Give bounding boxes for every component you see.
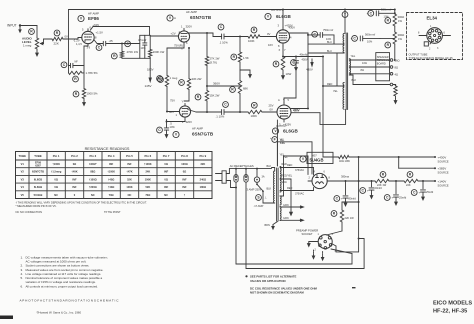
svg-text:1,4,5: 1,4,5	[76, 42, 82, 46]
svg-text:26Ω: 26Ω	[282, 181, 287, 184]
wire UL tap BLU lower	[308, 50, 344, 86]
capacitor C5 .1 10% lower	[216, 102, 229, 119]
svg-text:0V: 0V	[270, 108, 274, 112]
wire UL tap BLU upper	[308, 41, 344, 44]
wire B+ riser	[322, 57, 324, 158]
wire V2B grid	[167, 111, 179, 113]
svg-text:560mmf: 560mmf	[365, 33, 375, 37]
mark corner bar	[0, 316, 13, 320]
svg-text:70Ω: 70Ω	[145, 193, 150, 197]
wire R2 to V1 grid	[63, 38, 82, 40]
tube V2B 6SN7GTB	[169, 99, 214, 138]
svg-text:†100K: †100K	[107, 170, 115, 174]
svg-text:100K: 100K	[248, 39, 255, 43]
svg-text:Pin 5: Pin 5	[126, 154, 133, 158]
wire input to pot	[20, 26, 37, 39]
capacitor C2 feedback	[61, 61, 84, 68]
wire +140V chain	[359, 180, 375, 182]
svg-text:VALUES OR APPLICATION: VALUES OR APPLICATION	[250, 279, 286, 283]
svg-text:5: 5	[82, 28, 84, 32]
note DC COIL RESISTANCE	[250, 286, 317, 294]
svg-text:22K: 22K	[406, 183, 411, 187]
capacitor C11 80mfd filter	[334, 180, 356, 206]
wire socket shield grounds	[312, 250, 324, 260]
svg-text:Pin 1: Pin 1	[53, 154, 60, 158]
wire V2A cathode	[167, 45, 184, 75]
transformer T2 core	[277, 168, 279, 221]
svg-text:24K: 24K	[145, 170, 150, 174]
svg-text:0Ω: 0Ω	[164, 177, 168, 181]
svg-text:8: 8	[278, 44, 280, 48]
svg-text:NC: NC	[164, 193, 168, 197]
svg-text:60V: 60V	[169, 110, 174, 114]
wire V5 output	[331, 175, 359, 182]
wire V4 cathode up	[284, 66, 296, 102]
capacitor C4 .5 cathode bypass	[157, 120, 185, 138]
svg-text:240Ω: 240Ω	[200, 177, 206, 181]
svg-text:NC NO CONNECTION: NC NO CONNECTION	[16, 210, 43, 214]
resistor R8 33K 2W	[179, 47, 202, 101]
svg-text:1000 5%: 1000 5%	[87, 92, 99, 96]
svg-text:0Ω: 0Ω	[164, 162, 168, 166]
svg-text:68K: 68K	[243, 87, 248, 91]
svg-text:A P H O T O F A C T S T A N: A P H O T O F A C T S T A N D A R D N O …	[20, 298, 120, 302]
svg-text:Pin 2: Pin 2	[71, 154, 78, 158]
svg-text:YEL: YEL	[280, 142, 285, 145]
svg-text:1 meg: 1 meg	[23, 44, 32, 48]
svg-text:X: X	[279, 48, 281, 52]
wire T2 6.3V green Y	[280, 217, 304, 221]
wire socket top loop	[359, 239, 365, 269]
svg-text:4Ω: 4Ω	[395, 72, 399, 76]
svg-text:R: R	[387, 19, 390, 23]
svg-text:180Ω: 180Ω	[200, 185, 206, 189]
wire T1 sec tap 4ohm	[349, 73, 390, 75]
svg-text:RED: RED	[287, 187, 292, 190]
resistor R15 250 ohm 10W cathode	[273, 56, 292, 79]
svg-text:R: R	[387, 43, 390, 47]
wire socket left ground	[308, 242, 319, 247]
svg-text:NOT SHOWN ON SCHEMATIC DIA: NOT SHOWN ON SCHEMATIC DIAGRAM	[250, 291, 304, 295]
svg-text:†100K: †100K	[144, 162, 152, 166]
wire bottoms 470K/200K	[122, 57, 150, 59]
svg-text:22K 1W: 22K 1W	[345, 216, 355, 220]
svg-text:25mfd: 25mfd	[426, 190, 434, 194]
socket PREAMP POWER	[296, 228, 337, 253]
svg-text:C: C	[413, 191, 416, 195]
svg-text:320V: 320V	[186, 120, 193, 124]
svg-text:1.5K: 1.5K	[243, 56, 249, 60]
svg-text:GRN: GRN	[283, 217, 289, 220]
transformer T1 secondary	[349, 55, 356, 82]
svg-text:TUBE: TUBE	[34, 154, 42, 158]
svg-text:380ma: 380ma	[341, 175, 349, 179]
svg-text:-1.2V: -1.2V	[73, 39, 80, 43]
svg-text:6267: 6267	[35, 164, 41, 167]
resistor R10 15K 2W	[195, 91, 220, 114]
svg-text:†100Ω: †100Ω	[89, 177, 97, 181]
svg-text:†47K: †47K	[126, 170, 132, 174]
svg-text:R: R	[56, 31, 59, 35]
svg-text:(8.7K): (8.7K)	[210, 61, 218, 65]
svg-text:+: +	[341, 197, 343, 201]
svg-text:5.: 5.	[21, 276, 24, 280]
svg-text:BOARD: BOARD	[377, 63, 386, 66]
wire R7 bottom	[166, 87, 168, 113]
svg-text:V1: V1	[21, 162, 25, 166]
svg-text:+: +	[367, 189, 369, 193]
wire V3 screen	[289, 26, 309, 34]
svg-text:.25: .25	[109, 39, 114, 43]
table RESISTANCE READINGS	[16, 147, 213, 199]
svg-text:YEL: YEL	[351, 55, 356, 58]
svg-text:88Ω: 88Ω	[90, 170, 95, 174]
svg-text:NC: NC	[128, 193, 132, 197]
svg-text:320V: 320V	[186, 25, 193, 29]
svg-text:F: F	[274, 138, 276, 142]
wire top feedback rail	[69, 9, 396, 11]
svg-text:BLU: BLU	[327, 50, 332, 53]
svg-text:NC: NC	[91, 193, 95, 197]
transformer T1 primary bottom	[343, 83, 344, 110]
svg-text:SOCKET: SOCKET	[302, 232, 313, 236]
svg-text:22K: 22K	[54, 42, 59, 46]
svg-text:25mfd: 25mfd	[399, 196, 407, 200]
tube V4 6L6GB OUTPUT	[269, 98, 300, 146]
svg-text:420V: 420V	[293, 109, 300, 113]
wire box to V2A grid	[150, 35, 178, 37]
svg-text:6SN7GTB: 6SN7GTB	[32, 170, 44, 174]
svg-text:47mmf: 47mmf	[138, 38, 146, 42]
wire T2 HV center tap	[280, 175, 293, 216]
tube EL34	[418, 15, 451, 50]
svg-text:C: C	[353, 37, 356, 41]
svg-text:YEL: YEL	[333, 90, 338, 93]
node 145V feed	[145, 58, 164, 88]
svg-text:R: R	[113, 54, 116, 58]
wire feedback vertical	[68, 10, 70, 66]
svg-text:BLK: BLK	[267, 165, 272, 168]
svg-text:75V: 75V	[170, 99, 175, 103]
svg-text:1.78K 5%: 1.78K 5%	[86, 71, 99, 75]
svg-text:+: +	[290, 61, 292, 65]
resistor R13 1.5K	[231, 36, 249, 81]
svg-text:40mfd: 40mfd	[300, 52, 308, 56]
resistor R17 300 ohm 1W upper	[385, 9, 404, 27]
svg-text:1: 1	[176, 113, 178, 117]
svg-text:0V: 0V	[267, 32, 271, 36]
svg-text:TUBE: TUBE	[18, 154, 26, 158]
svg-text:SOURCE: SOURCE	[438, 184, 449, 188]
svg-text:R: R	[75, 92, 78, 96]
resistor R16 NFB divider	[393, 85, 397, 104]
svg-text:2: 2	[182, 120, 184, 124]
capacitor C8 750mmf	[307, 28, 334, 44]
svg-text:40Ω 10W: 40Ω 10W	[339, 159, 350, 163]
svg-text:1: 1	[318, 233, 320, 236]
svg-text:1: 1	[430, 25, 432, 28]
wire T1 sec tap 8ohm	[349, 67, 390, 72]
svg-text:INF: INF	[127, 162, 132, 166]
svg-text:V: V	[267, 15, 270, 19]
svg-text:+140V: +140V	[438, 180, 447, 184]
tube V1 EF86 AF AMP	[73, 12, 103, 50]
svg-text:+430V: +430V	[438, 156, 447, 160]
capacitor C7 40mfd cathode bypass	[283, 52, 324, 71]
mark speck	[352, 287, 356, 288]
tube V5 5U4GB rectifier	[300, 152, 333, 188]
resistor R2 22K	[52, 30, 68, 45]
svg-text:8: 8	[418, 32, 420, 35]
svg-text:10%: 10%	[170, 125, 176, 129]
capacitor C3 47mmf with resistor box	[138, 35, 150, 58]
svg-text:TP TIE POINT: TP TIE POINT	[104, 210, 121, 214]
wire bleeder vertical	[358, 157, 360, 202]
label 180V	[147, 68, 154, 72]
svg-text:X: X	[181, 47, 183, 51]
tube V2A 6SN7GTB AF AMP	[167, 10, 212, 51]
svg-text:1W: 1W	[398, 37, 402, 41]
svg-text:20mfd: 20mfd	[375, 186, 383, 190]
svg-text:6SN7GTB: 6SN7GTB	[190, 15, 212, 20]
svg-text:C: C	[313, 32, 316, 36]
transformer T1 output primary top	[343, 9, 346, 53]
svg-text:NC: NC	[54, 193, 58, 197]
svg-text:10%: 10%	[141, 47, 147, 50]
resistor R21 22K filter	[389, 172, 436, 187]
svg-text:6SN7GTB: 6SN7GTB	[192, 132, 214, 137]
svg-text:* MEASURED FROM PIN 8 OF V5.: * MEASURED FROM PIN 8 OF V5.	[16, 204, 57, 208]
svg-text:.5: .5	[170, 122, 173, 126]
label AC RECEPTACLES	[230, 164, 254, 168]
svg-text:+1.5V: +1.5V	[96, 31, 104, 35]
svg-text:INF: INF	[164, 185, 169, 189]
svg-text:RED: RED	[287, 164, 292, 167]
note SEE PARTS LIST	[245, 275, 296, 283]
svg-text:AF AMP: AF AMP	[192, 127, 203, 131]
svg-text:10W: 10W	[286, 72, 292, 76]
svg-text:3 AMP 250V: 3 AMP 250V	[247, 188, 262, 192]
wire AC bus top	[229, 165, 271, 169]
svg-text:300Ω: 300Ω	[398, 33, 405, 37]
receptacle 2	[235, 169, 248, 269]
resistor R3 feedback 1.78K	[69, 66, 99, 82]
capacitor C1 .25	[94, 39, 140, 51]
svg-text:EL34: EL34	[427, 15, 438, 20]
wire V4 filament drop	[277, 120, 284, 166]
potentiometer R1 AUDIO LEVEL 1 meg	[22, 29, 44, 49]
svg-text:3: 3	[278, 24, 280, 28]
box EL34 alternate output tube	[407, 13, 463, 60]
svg-text:R: R	[30, 30, 33, 34]
svg-text:V5: V5	[21, 193, 25, 197]
svg-text:Y: Y	[182, 100, 184, 104]
wire V2A plate	[188, 32, 208, 34]
wire V3 cathode	[282, 46, 284, 57]
svg-text:200K 1W: 200K 1W	[153, 50, 165, 54]
svg-text:V: V	[169, 16, 172, 20]
transformer T1 designator	[342, 12, 348, 18]
svg-text:52K: 52K	[127, 177, 132, 181]
svg-text:430V: 430V	[306, 68, 313, 72]
svg-text:V: V	[302, 157, 305, 161]
terminal 4 ohm	[390, 72, 398, 76]
resistor R12 100K grid V3	[224, 27, 276, 43]
svg-text:©Howard W. Sams & Co., Inc. 19: ©Howard W. Sams & Co., Inc. 1960	[37, 310, 82, 314]
resistor R14 68K	[230, 81, 249, 114]
svg-text:AC RECEPTACLES: AC RECEPTACLES	[230, 164, 254, 168]
svg-text:INF: INF	[109, 162, 114, 166]
capacitor C12 20mfd filter	[360, 180, 382, 198]
svg-text:450V: 450V	[302, 58, 308, 62]
title EICO MODELS HF-22 HF-35	[433, 301, 472, 315]
terminal G ground	[390, 83, 396, 87]
wire T1 sec tap 16ohm	[349, 60, 390, 65]
resistor R18 300 ohm 1W lower	[380, 26, 404, 48]
svg-text:750mmf: 750mmf	[323, 28, 333, 32]
transformer T2 6.3V winding	[265, 207, 282, 230]
resistor R7 1 meg	[157, 75, 178, 86]
svg-text:AF AMP: AF AMP	[88, 12, 99, 16]
note PHOTOFACT line	[20, 298, 120, 302]
svg-text:OUTPUT: OUTPUT	[271, 8, 283, 12]
capacitor C6 .1 10% upper	[207, 24, 228, 44]
svg-text:375VAC: 375VAC	[295, 193, 304, 196]
svg-text:†100K: †100K	[52, 162, 60, 166]
svg-text:R: R	[74, 77, 77, 81]
svg-text:Y: Y	[284, 48, 286, 52]
node +430V SOURCE	[434, 156, 449, 164]
svg-text:+: +	[311, 32, 313, 36]
svg-text:† THIS READING WILL VARY DEP: † THIS READING WILL VARY DEPENDING UPON …	[16, 200, 148, 204]
svg-text:R: R	[253, 104, 256, 108]
note copyright	[37, 310, 82, 314]
svg-text:A: A	[278, 98, 280, 102]
svg-text:GRN: GRN	[283, 204, 289, 207]
resistor R9 27K 1W plate load	[205, 33, 220, 66]
svg-text:†: †	[184, 193, 186, 197]
svg-text:8: 8	[329, 177, 331, 180]
svg-text:3: 3	[437, 47, 439, 50]
node INPUT jack J1	[7, 24, 21, 33]
svg-text:BRN: BRN	[265, 224, 270, 227]
svg-text:INF: INF	[182, 177, 187, 181]
svg-text:10%: 10%	[367, 40, 373, 44]
resistor R5 470K 1W	[111, 43, 138, 59]
svg-text:0Ω: 0Ω	[183, 170, 187, 174]
svg-text:.1 10%: .1 10%	[216, 114, 225, 118]
label OUTPUT TUBE note	[409, 53, 454, 61]
svg-text:6.: 6.	[21, 284, 24, 288]
svg-text:R: R	[409, 173, 412, 177]
svg-text:V: V	[80, 17, 83, 21]
wire V4 screen	[291, 108, 309, 110]
svg-text:0: 0	[74, 193, 76, 197]
svg-text:145V: 145V	[145, 84, 152, 88]
svg-text:RESISTANCE READINGS: RESISTANCE READINGS	[85, 147, 130, 151]
svg-text:C: C	[370, 12, 373, 16]
svg-text:C: C	[98, 46, 101, 50]
svg-text:+: +	[351, 37, 353, 41]
svg-text:6L6GB: 6L6GB	[34, 177, 42, 181]
svg-text:1 meg: 1 meg	[170, 76, 178, 80]
tube V3 6L6GB OUTPUT	[265, 8, 293, 52]
svg-text:.17 AMP: .17 AMP	[254, 204, 264, 208]
svg-text:C: C	[220, 25, 223, 29]
svg-text:Pin 9: Pin 9	[200, 154, 207, 158]
wire V4 plate	[291, 109, 346, 125]
svg-text:300Ω: 300Ω	[398, 15, 405, 19]
svg-text:+: +	[367, 12, 369, 16]
svg-text:C: C	[361, 189, 364, 193]
svg-text:SOURCE: SOURCE	[438, 171, 449, 175]
svg-text:100K: 100K	[126, 185, 132, 189]
svg-text:†40Ω: †40Ω	[108, 185, 114, 189]
svg-text:A: A	[174, 16, 176, 20]
svg-text:100K: 100K	[145, 177, 151, 181]
svg-text:360V: 360V	[213, 82, 220, 86]
svg-text:INF: INF	[182, 185, 187, 189]
svg-text:V2: V2	[21, 170, 25, 174]
svg-text:33K 2W: 33K 2W	[192, 77, 202, 81]
svg-text:R: R	[275, 62, 278, 66]
ground pot R1	[36, 49, 39, 56]
svg-text:6L6GB: 6L6GB	[283, 129, 298, 134]
receptacle 1	[234, 169, 238, 264]
transformer T2 5V winding	[280, 196, 281, 205]
svg-text:†40Ω: †40Ω	[108, 177, 114, 181]
choke-resistor R19 on B+ rail	[323, 155, 435, 163]
svg-text:375VAC: 375VAC	[295, 169, 304, 172]
svg-text:100Ω: 100Ω	[181, 162, 187, 166]
svg-text:15K 2W: 15K 2W	[210, 94, 220, 98]
svg-text:1W: 1W	[398, 19, 402, 23]
svg-text:180V: 180V	[147, 68, 154, 72]
svg-text:RED/YEL: RED/YEL	[282, 175, 293, 178]
svg-text:C: C	[126, 42, 129, 46]
svg-text:C: C	[224, 103, 227, 107]
svg-text:OUTPUT TUBE: OUTPUT TUBE	[409, 53, 428, 57]
wire screen bus vertical	[307, 33, 309, 109]
svg-text:INF: INF	[164, 170, 169, 174]
svg-text:Pin 6: Pin 6	[145, 154, 152, 158]
switch S1 on-off	[254, 182, 272, 208]
svg-text:4: 4	[290, 36, 292, 40]
transformer T2 primary	[272, 168, 275, 204]
wire pot wiper to R2	[44, 38, 53, 40]
wire T1 sec ground lead	[349, 75, 390, 85]
svg-text:430V: 430V	[289, 26, 296, 30]
transformer T1 core	[346, 33, 347, 110]
svg-text:2: 2	[429, 48, 431, 51]
svg-text:INF: INF	[72, 185, 77, 189]
svg-text:16Ω: 16Ω	[362, 61, 367, 65]
svg-text:100K: 100K	[251, 114, 258, 118]
svg-text:R: R	[197, 95, 200, 99]
svg-text:BLK: BLK	[352, 79, 357, 82]
svg-text:C: C	[158, 128, 161, 132]
svg-text:†1.5meg: †1.5meg	[51, 170, 62, 174]
svg-text:Pin 7: Pin 7	[163, 154, 170, 158]
resistor R20 22K 1W filter	[375, 172, 389, 187]
svg-text:8Ω: 8Ω	[361, 68, 364, 72]
svg-text:6: 6	[186, 41, 188, 45]
svg-text:EICO MODELS: EICO MODELS	[433, 301, 472, 307]
svg-text:1: 1	[181, 25, 183, 29]
svg-text:C: C	[336, 197, 339, 201]
capacitor C14 25mfd filter	[411, 180, 433, 200]
svg-text:V: V	[175, 133, 178, 137]
